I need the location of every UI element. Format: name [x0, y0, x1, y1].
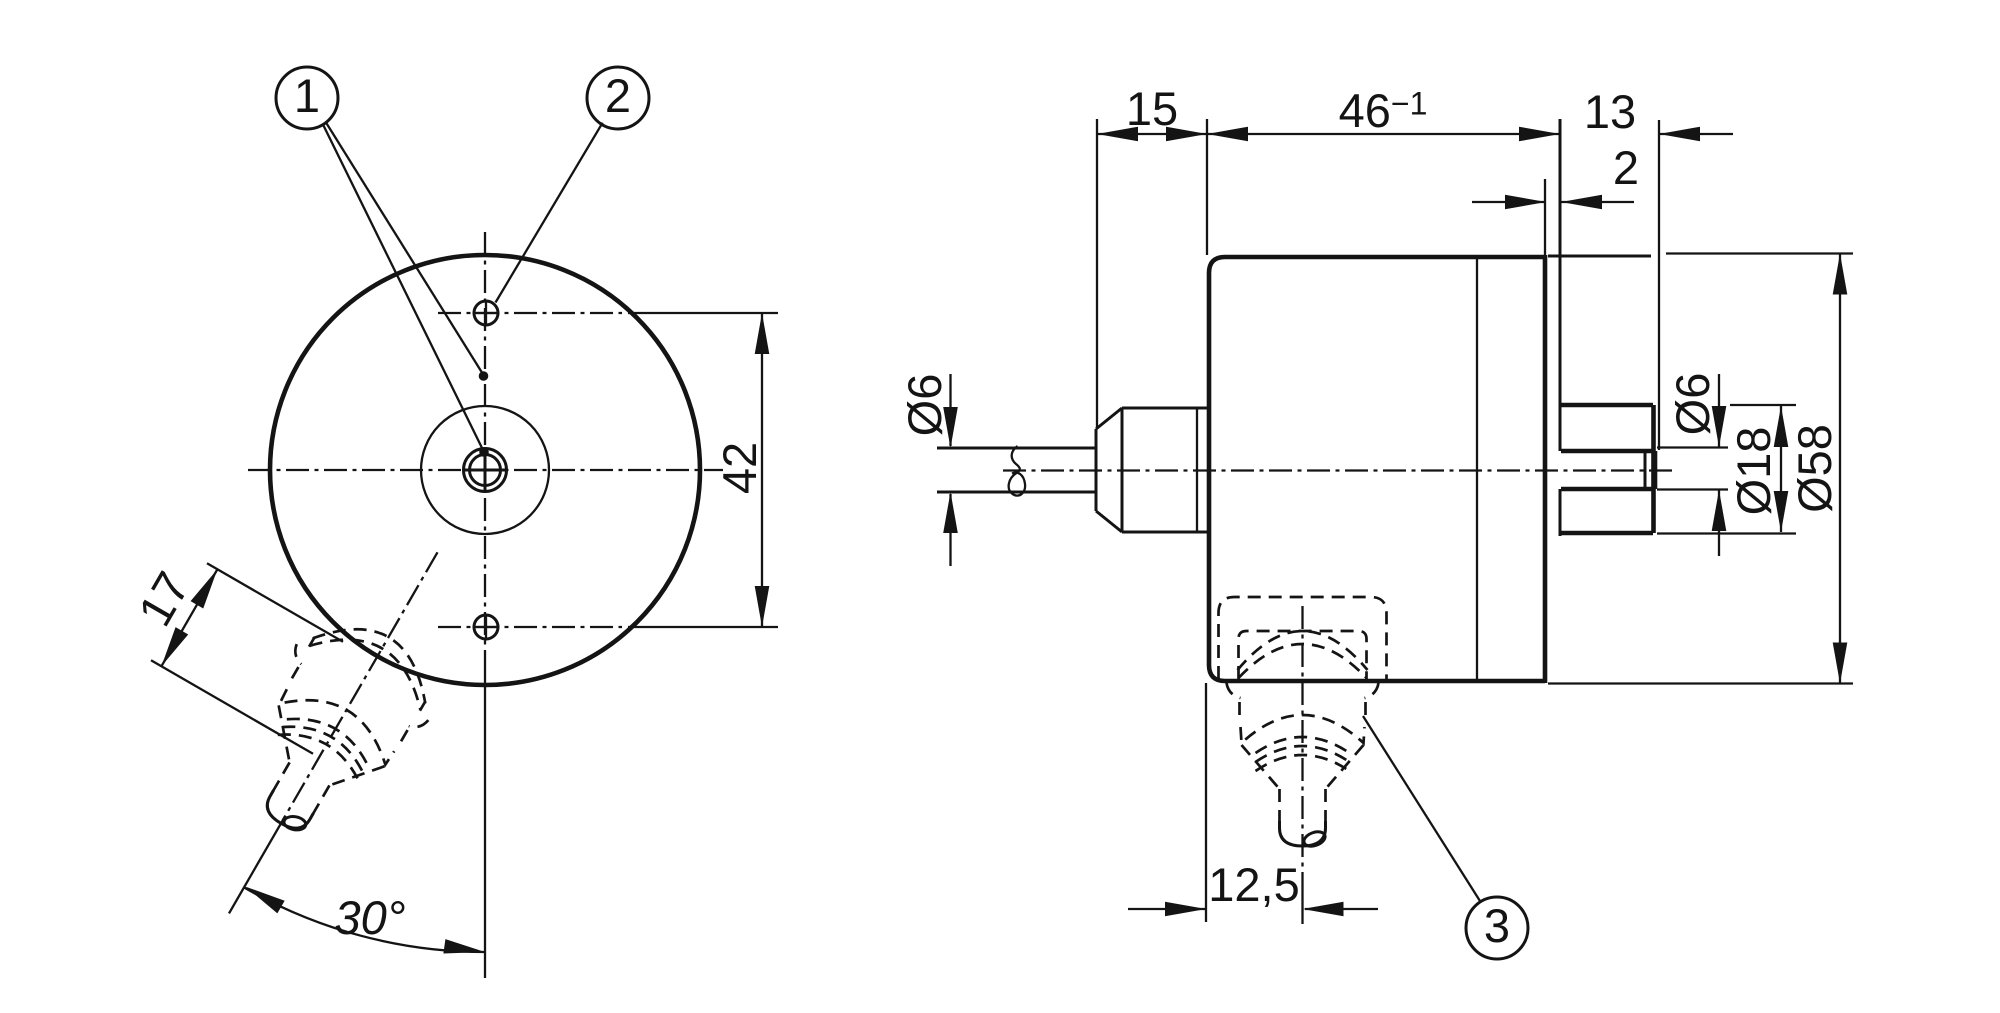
- svg-text:3: 3: [1484, 899, 1510, 952]
- svg-text:12,5: 12,5: [1208, 858, 1299, 911]
- svg-text:42: 42: [713, 442, 766, 494]
- svg-text:13: 13: [1584, 85, 1636, 138]
- svg-text:Ø6: Ø6: [1666, 373, 1719, 436]
- svg-text:Ø18: Ø18: [1727, 427, 1780, 516]
- svg-text:15: 15: [1126, 82, 1178, 135]
- svg-text:2: 2: [605, 69, 631, 122]
- svg-text:Ø6: Ø6: [898, 374, 951, 437]
- svg-text:1: 1: [294, 69, 320, 122]
- svg-text:Ø58: Ø58: [1788, 424, 1841, 513]
- svg-text:30°: 30°: [334, 891, 405, 944]
- svg-text:2: 2: [1613, 141, 1639, 194]
